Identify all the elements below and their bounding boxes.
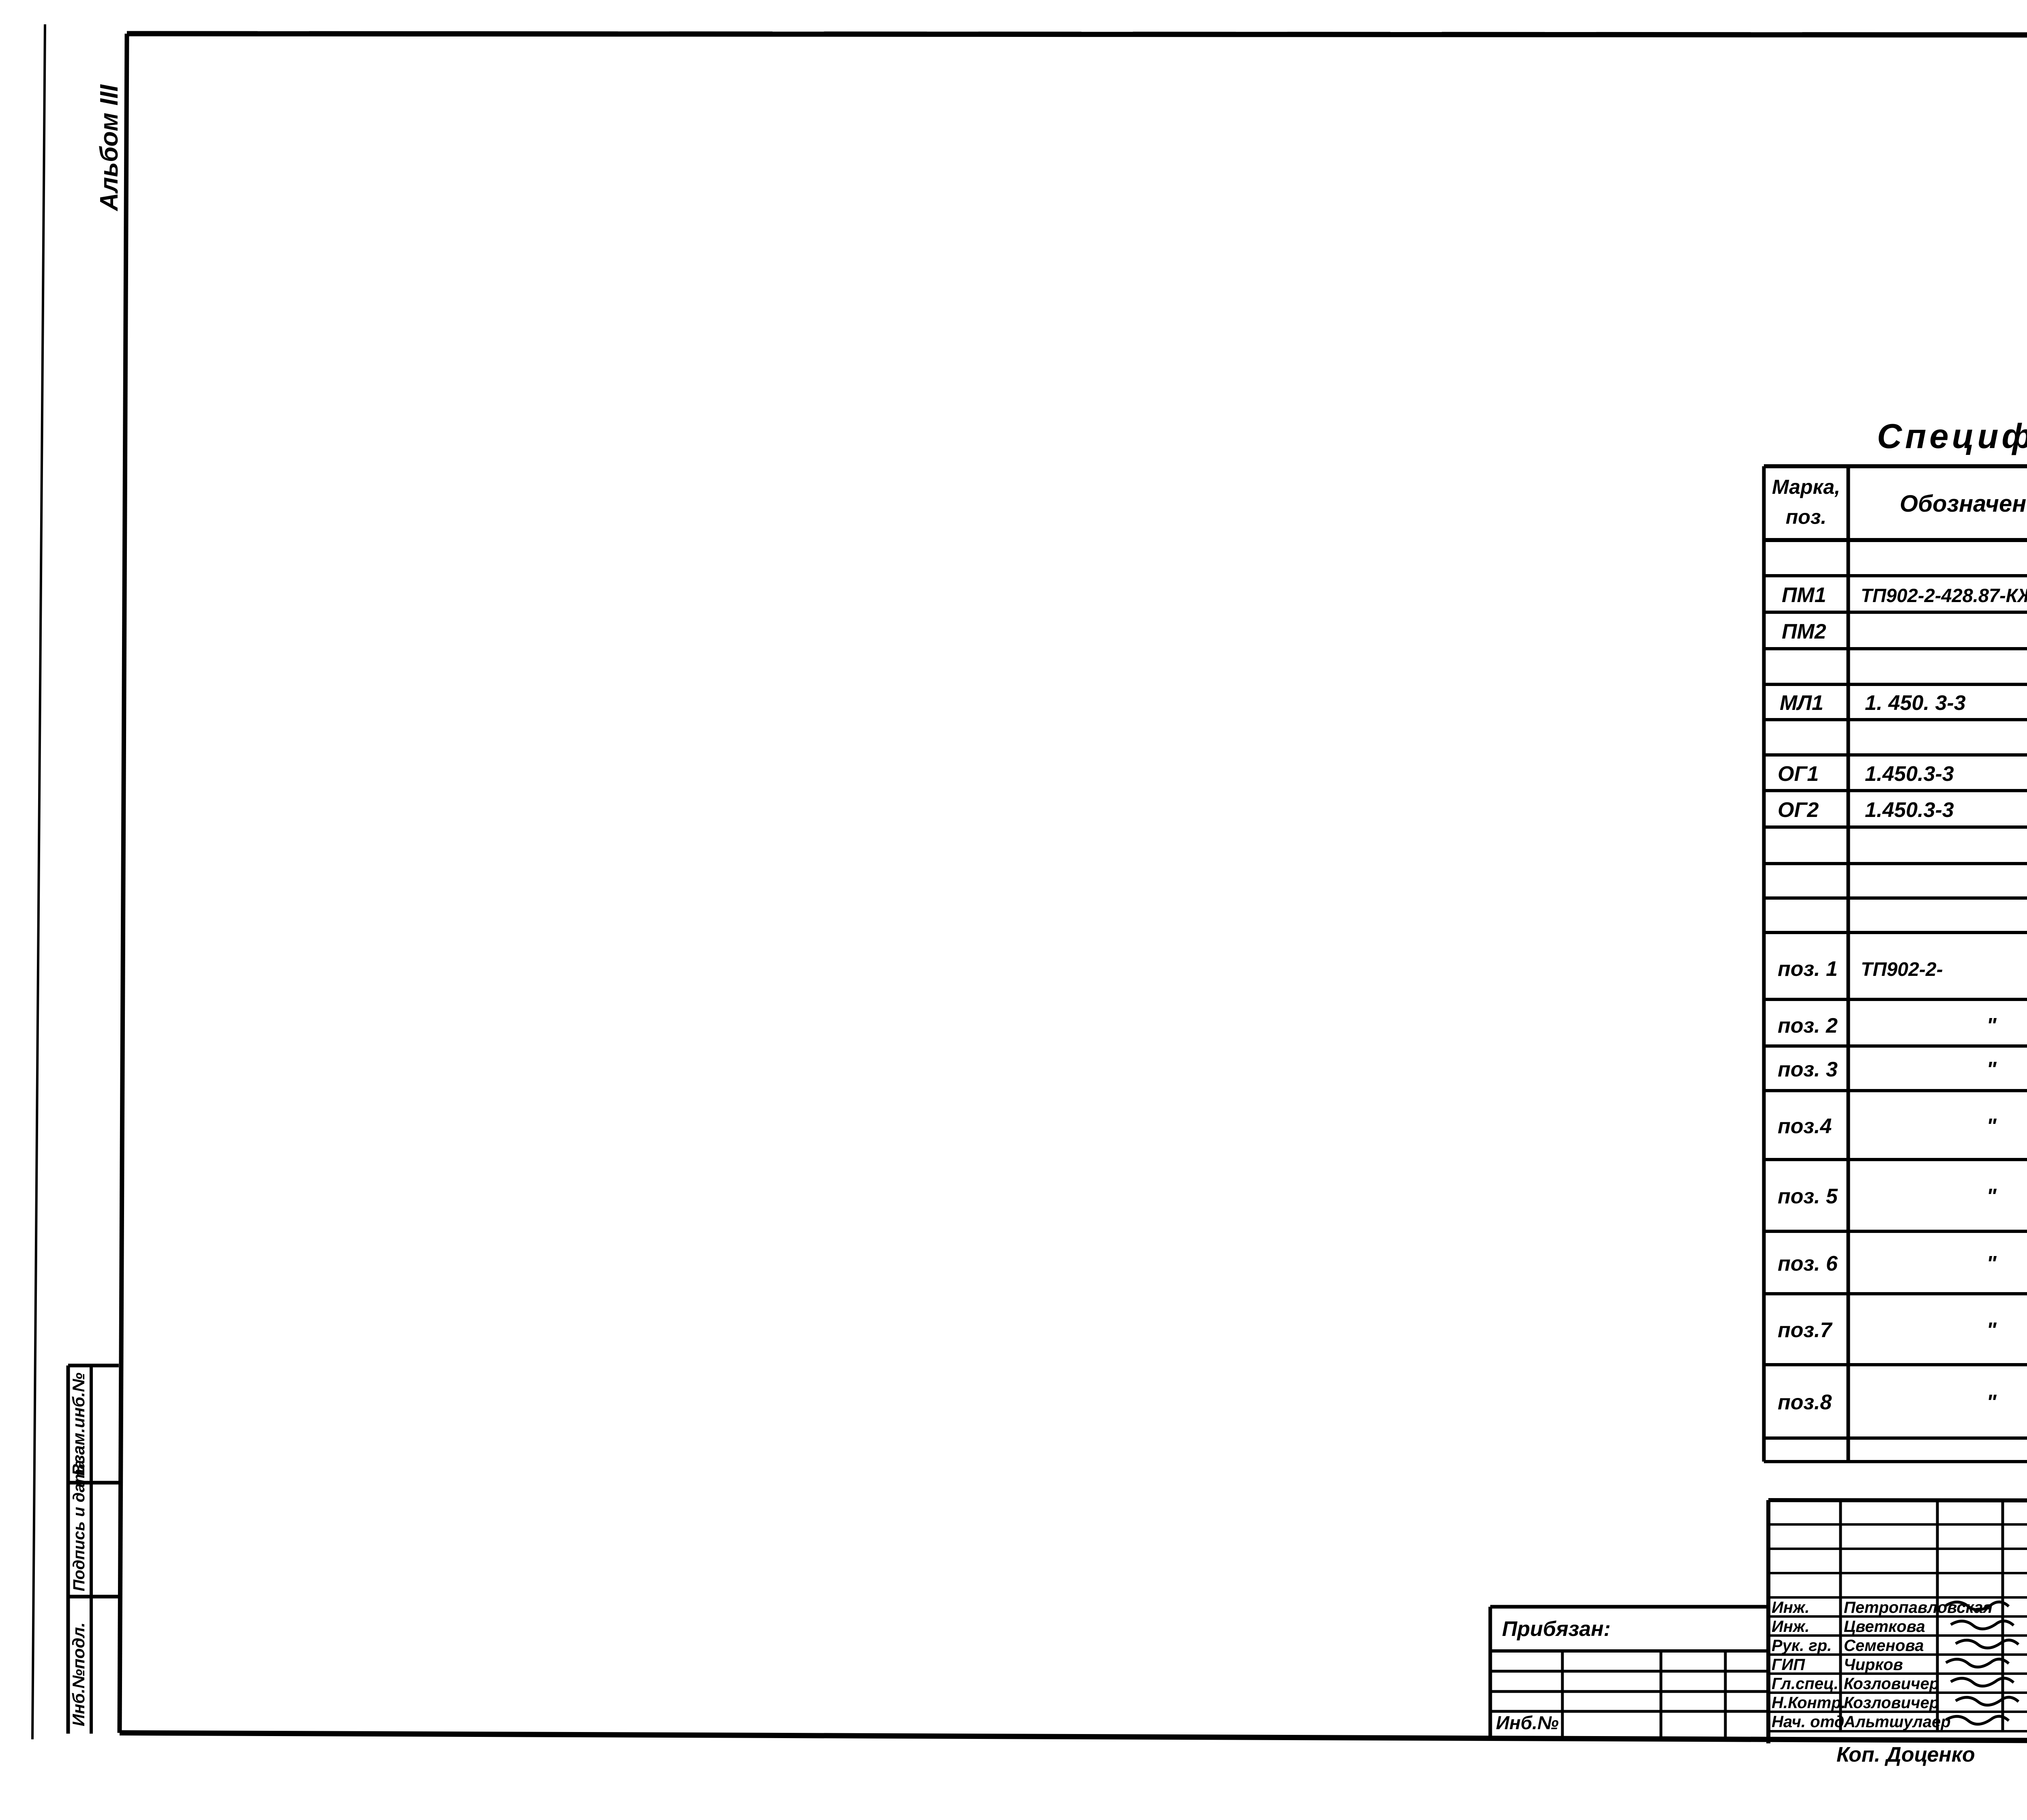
svg-text:Инб.№подл.: Инб.№подл. [69, 1623, 88, 1726]
svg-text:1.450.3-3: 1.450.3-3 [1865, 798, 1954, 822]
svg-text:Инж.: Инж. [1772, 1599, 1810, 1616]
svg-text:Альтшулаер: Альтшулаер [1843, 1713, 1951, 1731]
spec table grid [1762, 466, 1766, 1462]
svg-text:Инж.: Инж. [1772, 1618, 1810, 1636]
svg-text:Козловичер: Козловичер [1844, 1694, 1939, 1712]
svg-text:Альбом III: Альбом III [95, 84, 123, 212]
svg-text:поз. 1: поз. 1 [1778, 957, 1838, 981]
svg-text:": " [1986, 1185, 1997, 1208]
svg-text:Гл.спец.: Гл.спец. [1772, 1675, 1838, 1693]
svg-text:поз. 2: поз. 2 [1778, 1014, 1838, 1038]
svg-text:МЛ1: МЛ1 [1780, 691, 1823, 715]
svg-text:1.450.3-3: 1.450.3-3 [1865, 762, 1954, 786]
svg-text:поз.4: поз.4 [1778, 1115, 1832, 1138]
svg-text:поз. 5: поз. 5 [1778, 1185, 1838, 1208]
svg-text:": " [1986, 1318, 1997, 1342]
svg-text:": " [1986, 1058, 1997, 1081]
svg-text:": " [1986, 1252, 1997, 1276]
svg-text:поз. 3: поз. 3 [1778, 1058, 1838, 1081]
svg-text:ГИП: ГИП [1772, 1656, 1805, 1674]
svg-text:ПМ2: ПМ2 [1782, 620, 1826, 643]
svg-text:Чирков: Чирков [1844, 1656, 1903, 1674]
svg-text:Обозначение: Обозначение [1900, 491, 2027, 517]
svg-text:Марка,: Марка, [1772, 476, 1840, 498]
svg-text:Инб.№: Инб.№ [1496, 1712, 1559, 1733]
svg-text:Рук. гр.: Рук. гр. [1772, 1637, 1832, 1655]
svg-text:Козловичер: Козловичер [1844, 1675, 1939, 1693]
svg-text:Спецификация: Спецификация [1877, 417, 2027, 456]
page frame outer thin left line [32, 24, 45, 1739]
svg-text:поз.8: поз.8 [1778, 1391, 1832, 1414]
svg-text:Прибязан:: Прибязан: [1502, 1617, 1611, 1641]
svg-text:": " [1986, 1014, 1997, 1038]
svg-text:Цветкова: Цветкова [1844, 1618, 1925, 1636]
svg-text:Коп. Доценко: Коп. Доценко [1836, 1743, 1975, 1766]
svg-text:ОГ1: ОГ1 [1778, 762, 1819, 786]
svg-text:Подпись и дата: Подпись и дата [70, 1460, 88, 1591]
svg-text:ТП902-2-428.87-КЖ.И.8.1.00: ТП902-2-428.87-КЖ.И.8.1.00 [1861, 585, 2027, 606]
svg-text:поз. 6: поз. 6 [1778, 1252, 1838, 1276]
drawing frame border [127, 34, 2027, 35]
svg-text:": " [1986, 1115, 1997, 1138]
svg-text:ОГ2: ОГ2 [1778, 798, 1819, 822]
title block [1768, 1500, 2027, 1501]
svg-text:ПМ1: ПМ1 [1782, 583, 1826, 607]
svg-text:ТП902-2-: ТП902-2- [1861, 959, 1943, 980]
svg-text:": " [1986, 1391, 1997, 1414]
tie-in box [1490, 1605, 1768, 1609]
left stamp strip [68, 1364, 119, 1368]
svg-text:поз.: поз. [1786, 506, 1827, 528]
svg-text:1. 450. 3-3: 1. 450. 3-3 [1865, 691, 1966, 715]
svg-text:Семенова: Семенова [1844, 1637, 1924, 1655]
svg-text:поз.7: поз.7 [1778, 1318, 1833, 1342]
svg-text:Н.Контр.: Н.Контр. [1772, 1694, 1846, 1712]
svg-text:Нач. отд: Нач. отд [1772, 1713, 1844, 1731]
